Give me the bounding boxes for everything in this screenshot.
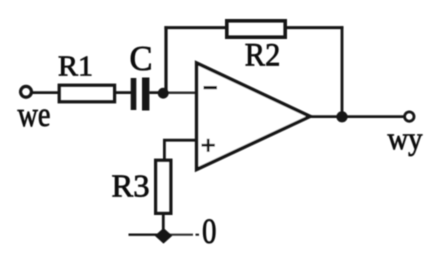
resistor R3: [156, 160, 171, 213]
node: junction dot at inverting input: [158, 88, 169, 99]
wire: down to R3: [163, 140, 166, 159]
wire: riser from node up to feedback rail: [164, 26, 167, 93]
ground: reference rail left segment: [129, 234, 164, 236]
ground: node junction (filled diamond): [155, 228, 173, 244]
terminal: input terminal circle (we): [21, 86, 32, 97]
ground: reference rail right segment: [163, 234, 193, 236]
wire: R3 to ground node: [162, 215, 165, 234]
wire: drop from feedback rail down to output node: [341, 26, 344, 117]
svg-text:R2: R2: [245, 38, 280, 74]
wire: node to op-amp inverting input: [168, 92, 197, 95]
ground: rail dash near 0 label: [196, 234, 200, 236]
op-amp U1 (triangle): [197, 63, 310, 170]
wire: feedback rail, corner to R2: [164, 26, 226, 29]
node: output junction dot: [336, 111, 347, 122]
wire: feedback rail, R2 to right corner: [287, 26, 343, 29]
svg-text:R3: R3: [112, 169, 150, 204]
resistor R2: [227, 21, 285, 37]
resistor R1: [59, 85, 114, 102]
capacitor C (left plate): [131, 78, 137, 110]
svg-text:C: C: [130, 39, 153, 78]
op-amp inverting input marker (-): [204, 86, 218, 89]
svg-text:0: 0: [202, 211, 217, 251]
wire: capacitor to node: [149, 91, 168, 94]
terminal: output terminal circle (wy): [405, 112, 414, 121]
wire: R1 to capacitor C: [116, 91, 132, 94]
wire: non-inverting input horizontal: [163, 139, 197, 142]
wire: op-amp output to output terminal: [309, 115, 405, 118]
svg-text:we: we: [18, 95, 51, 134]
svg-text:R1: R1: [58, 51, 93, 83]
op-amp non-inverting input marker (+): [202, 139, 215, 152]
wire: input terminal to R1: [33, 91, 59, 94]
capacitor C (right plate): [142, 78, 149, 111]
svg-text:wy: wy: [388, 120, 423, 156]
